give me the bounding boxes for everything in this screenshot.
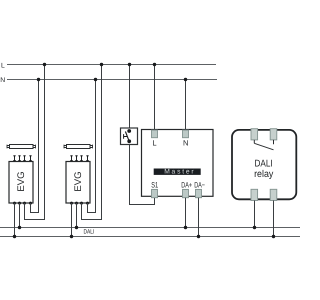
terminal relay top-left bbox=[251, 129, 258, 140]
junction EVG1 on upper bus bbox=[18, 226, 21, 229]
junction EVG2 on upper bus bbox=[75, 226, 78, 229]
wire L rail to Master L bbox=[154, 65, 156, 131]
ballast EVG2 bbox=[66, 162, 90, 204]
actuator DALI relay box bbox=[232, 130, 296, 199]
svg-text:DA+: DA+ bbox=[181, 181, 192, 190]
svg-text:L: L bbox=[152, 139, 156, 148]
junction EVG2-N on N rail bbox=[94, 78, 97, 81]
push-button S contacts and blade bbox=[124, 129, 131, 143]
node DALI bus upper (DA+) bbox=[0, 227, 300, 229]
svg-text:N: N bbox=[183, 139, 188, 148]
push-button S box bbox=[121, 128, 138, 145]
junction relay on lower bus bbox=[272, 235, 275, 238]
junction Master-N on N rail bbox=[184, 78, 187, 81]
junction EVG2-L on L rail bbox=[100, 63, 103, 66]
node N rail bbox=[7, 79, 217, 81]
junction S on L rail bbox=[128, 63, 131, 66]
junction EVG2 on lower bus bbox=[70, 235, 73, 238]
terminal Master S1 bbox=[152, 189, 158, 197]
svg-text:EVG: EVG bbox=[73, 171, 84, 191]
terminal relay bottom-right bbox=[270, 189, 277, 200]
Master name bar bbox=[154, 169, 201, 175]
wire EVG2 pin4 loop to N rail bbox=[88, 80, 96, 213]
terminal Master L bbox=[152, 130, 158, 138]
wire N rail to Master N bbox=[185, 80, 187, 131]
wire L rail to push-button S bbox=[129, 65, 131, 129]
svg-text:DALI: DALI bbox=[84, 229, 95, 236]
wire EVG1 pin2 to upper bus bbox=[19, 203, 21, 228]
lamp EL2 (fluorescent tube) bbox=[64, 145, 93, 149]
junction DA+ on upper bus bbox=[184, 226, 187, 229]
EVG2 pin dots bottom bbox=[70, 202, 89, 205]
wire EVG2 pin1 to lower bus bbox=[71, 203, 73, 237]
wire relay to lower bus bbox=[273, 201, 275, 237]
terminal relay bottom-left bbox=[251, 189, 258, 200]
junction EVG1-N on N rail bbox=[37, 78, 40, 81]
lamp EL1 (fluorescent tube) bbox=[7, 145, 36, 149]
wire EVG1 pin1 to lower bus bbox=[14, 203, 16, 237]
junction Master-L on L rail bbox=[153, 63, 156, 66]
junction relay on upper bus bbox=[253, 226, 256, 229]
junction DA- on lower bus bbox=[197, 235, 200, 238]
svg-text:N: N bbox=[0, 77, 5, 84]
svg-text:L: L bbox=[1, 62, 5, 69]
wire EVG2 pin2 to upper bus bbox=[76, 203, 78, 228]
wire Master DA- to lower bus bbox=[198, 198, 200, 237]
ballast EVG1 bbox=[9, 162, 33, 204]
svg-text:EVG: EVG bbox=[16, 171, 27, 191]
junction EVG1 on lower bus bbox=[13, 235, 16, 238]
node L rail bbox=[7, 64, 216, 66]
terminal Master DA- bbox=[196, 189, 202, 197]
junction EVG1-L on L rail bbox=[43, 63, 46, 66]
wire relay to upper bus bbox=[254, 201, 256, 228]
wire EVG1 pin3 loop to L rail bbox=[25, 65, 45, 220]
wire push-button to S1 terminal bbox=[130, 145, 155, 205]
terminal relay top-right bbox=[270, 129, 277, 140]
svg-text:relay: relay bbox=[254, 169, 273, 180]
wire EVG2 pin3 loop to L rail bbox=[82, 65, 102, 220]
lamp EL2 leads (arrow stubs into EVG2) bbox=[70, 155, 89, 163]
controller Master box bbox=[142, 130, 214, 197]
node DALI bus lower (DA-) bbox=[0, 236, 300, 238]
terminal Master DA+ bbox=[183, 189, 189, 197]
svg-text:S1: S1 bbox=[151, 181, 158, 190]
EVG1 pin dots bottom bbox=[13, 202, 32, 205]
lamp EL1 leads (arrow stubs into EVG1) bbox=[13, 155, 32, 163]
wire Master DA+ to upper bus bbox=[185, 198, 187, 228]
terminal Master N bbox=[183, 130, 189, 138]
relay contact symbol bbox=[254, 140, 273, 150]
wire EVG1 pin4 loop to N rail bbox=[31, 80, 39, 213]
svg-text:DA−: DA− bbox=[194, 181, 205, 190]
